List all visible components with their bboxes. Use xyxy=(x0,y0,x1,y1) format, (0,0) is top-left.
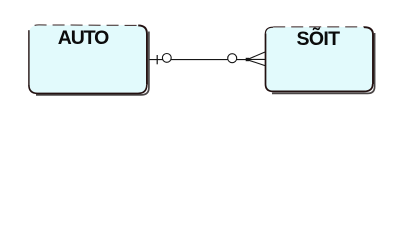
svg-text:AUTO: AUTO xyxy=(58,27,110,49)
svg-text:SÕIT: SÕIT xyxy=(297,26,341,50)
